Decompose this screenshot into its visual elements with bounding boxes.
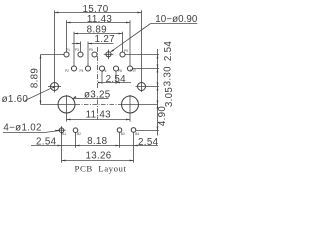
svg-text:P2: P2 [65,69,69,73]
svg-text:P6: P6 [103,69,107,73]
svg-text:8.89: 8.89 [29,68,40,88]
svg-text:1.27: 1.27 [95,34,115,45]
svg-text:P4: P4 [80,69,84,73]
svg-text:2.54: 2.54 [138,137,159,148]
svg-text:3.05: 3.05 [164,87,175,108]
svg-text:2.54: 2.54 [163,41,174,62]
svg-text:P1: P1 [66,48,70,52]
svg-text:ø3.25: ø3.25 [84,89,111,100]
svg-text:10−ø0.90: 10−ø0.90 [155,14,198,25]
svg-text:B1: B1 [62,132,66,136]
svg-text:P8: P8 [118,69,122,73]
svg-text:B2: B2 [77,132,81,136]
svg-text:P3: P3 [75,48,79,52]
svg-text:4−ø1.02: 4−ø1.02 [3,123,41,134]
svg-text:P5: P5 [89,48,93,52]
svg-text:4.90: 4.90 [157,106,168,127]
svg-text:P9: P9 [124,49,128,53]
svg-text:8.18: 8.18 [87,136,108,147]
svg-text:ø1.60: ø1.60 [2,94,29,105]
svg-text:P10: P10 [130,68,136,72]
svg-text:11.43: 11.43 [87,14,113,25]
svg-text:11.43: 11.43 [86,110,112,121]
svg-text:B3: B3 [121,132,125,136]
svg-text:13.26: 13.26 [85,151,111,162]
svg-text:3.30: 3.30 [163,66,174,87]
svg-text:PCB Layout: PCB Layout [75,163,127,173]
svg-text:2.54: 2.54 [106,74,127,85]
svg-text:B4: B4 [135,132,139,136]
svg-text:2.54: 2.54 [36,137,57,148]
